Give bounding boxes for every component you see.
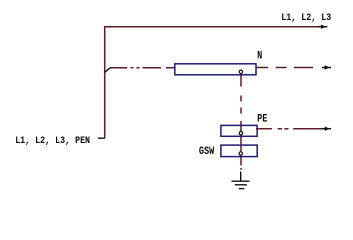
svg-text:L1, L2, L3, PEN: L1, L2, L3, PEN — [15, 134, 90, 146]
svg-text:N: N — [257, 50, 262, 62]
svg-text:L1, L2, L3: L1, L2, L3 — [281, 11, 331, 23]
svg-text:PE: PE — [257, 113, 267, 125]
svg-text:GSW: GSW — [199, 145, 215, 157]
